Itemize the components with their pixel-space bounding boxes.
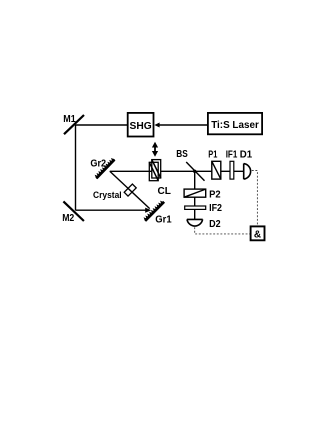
translation double arrow — [152, 142, 158, 157]
grating Gr1 — [144, 201, 172, 225]
svg-text:Crystal: Crystal — [93, 190, 122, 200]
svg-text:Gr2: Gr2 — [90, 159, 106, 170]
svg-text:IF2: IF2 — [209, 203, 222, 214]
mirror M2 — [62, 201, 84, 224]
svg-text:P2: P2 — [209, 189, 221, 200]
wire: beam BS down to D2 — [194, 171, 196, 219]
svg-text:SHG: SHG — [130, 121, 152, 132]
SHG box U-SHG — [128, 113, 154, 137]
svg-text:IF1: IF1 — [226, 149, 238, 160]
wire: beam M1 down to M2 — [75, 125, 77, 210]
node: BS junction dot — [193, 170, 196, 173]
crystal — [93, 184, 136, 200]
wire: beam M2 to Gr1 with arrowhead — [76, 208, 152, 213]
svg-text:Ti:S Laser: Ti:S Laser — [211, 120, 259, 131]
cylindrical lens CL — [149, 160, 171, 197]
wire: diagonal beam Gr1 to Gr2 through crystal — [110, 171, 150, 208]
filter IF2 — [185, 203, 223, 214]
detector D2 — [187, 219, 221, 230]
svg-text:Gr1: Gr1 — [155, 215, 172, 226]
AND gate & — [251, 226, 265, 240]
svg-text:M2: M2 — [62, 213, 74, 224]
mirror M1 — [63, 114, 84, 134]
svg-text:P1: P1 — [208, 149, 217, 160]
detector D1 — [240, 149, 253, 179]
svg-text:CL: CL — [158, 186, 171, 197]
polarizer P2 — [184, 189, 221, 200]
wire: beam Ti:S Laser to SHG — [154, 123, 208, 128]
polarizer P1 — [208, 149, 221, 179]
Ti:S Laser box — [208, 113, 262, 134]
svg-text:D1: D1 — [240, 149, 253, 160]
wire: beam Gr2 to D1 (through CL, BS, P1, IF1) — [110, 170, 244, 172]
svg-text:D2: D2 — [209, 219, 221, 230]
wire: dashed D1 to AND gate — [252, 171, 258, 227]
wire: dashed D2 to AND gate — [195, 227, 251, 234]
beam splitter BS — [176, 149, 204, 181]
svg-text:BS: BS — [176, 149, 188, 160]
svg-text:M1: M1 — [63, 114, 76, 125]
filter IF1 — [226, 149, 238, 179]
grating Gr2 — [90, 159, 114, 179]
svg-text:&: & — [254, 229, 261, 240]
wire: beam SHG to M1 — [76, 124, 128, 126]
